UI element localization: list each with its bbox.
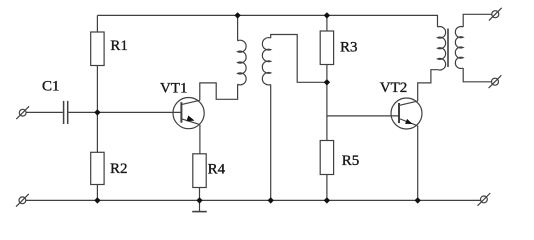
wire T1 secondary top lead to R3 bottom node [271, 35, 327, 83]
node dot T1 primary top on supply rail [234, 12, 240, 18]
wire R3 bottom through node and tee to R5 top [326, 65, 328, 141]
resistor R5 [320, 141, 333, 175]
resistor R4 [193, 154, 206, 188]
resistor R3 [320, 31, 333, 65]
resistor R1 [91, 32, 104, 66]
svg-text:VT1: VT1 [160, 80, 188, 96]
node dot T1 secondary on rail [268, 197, 274, 203]
terminal input left [16, 106, 29, 119]
svg-text:C1: C1 [42, 79, 60, 95]
node A junction dot (C1/R1/R2/base) [94, 109, 100, 115]
wire T2 secondary top lead to output terminal [463, 14, 492, 27]
svg-text:R1: R1 [110, 38, 128, 54]
transformer T1 secondary winding [262, 38, 270, 85]
wire C1 to node to VT1 base [68, 111, 181, 113]
wire VT1 emitter to R4 [199, 125, 201, 154]
wire VT1 collector staircase to T1 primary bottom [200, 83, 238, 101]
transistor VT2 [391, 98, 422, 129]
transformer T2 secondary winding [455, 27, 463, 69]
transformer T1 primary winding [238, 15, 247, 84]
transistor VT1 [173, 98, 204, 129]
wire R4 bottom lead [199, 188, 201, 201]
node dot R2 on rail [94, 197, 100, 203]
wire bottom ground rail [26, 199, 481, 201]
transformer T2 core [447, 29, 449, 68]
wire left column (R1 top lead) [96, 15, 98, 32]
terminal output top right [489, 8, 502, 21]
node dot R4/ground on rail [196, 197, 202, 203]
terminal output lower right [489, 75, 502, 88]
wire R1 bottom to input node to R2 top [96, 66, 98, 153]
node dot VT2 emitter on rail [415, 197, 421, 203]
svg-text:R5: R5 [342, 153, 360, 169]
wire VT2 base [327, 115, 399, 117]
svg-text:VT2: VT2 [380, 80, 408, 96]
svg-text:R2: R2 [110, 161, 128, 177]
wire T1 secondary bottom lead to ground rail [270, 85, 272, 201]
wire R3 top lead [326, 15, 328, 31]
wire R5 bottom lead [326, 175, 328, 201]
transformer T2 primary winding [438, 27, 446, 70]
node dot R3 bottom / T1 secondary [324, 79, 330, 85]
wire R2 bottom lead [96, 185, 98, 201]
svg-text:R4: R4 [208, 161, 226, 177]
ground symbol [192, 200, 207, 211]
node dot R5 on rail [324, 197, 330, 203]
resistor R2 [91, 152, 104, 184]
terminal bottom right [478, 193, 491, 206]
wire input terminal to C1 [26, 111, 63, 113]
wire VT2 emitter to ground rail [417, 126, 419, 201]
wire VT2 collector staircase to T2 primary bottom [418, 70, 438, 101]
node dot R3 top on supply rail [324, 12, 330, 18]
wire top supply rail [97, 15, 437, 27]
wire T2 secondary bottom lead to output terminal [463, 68, 491, 82]
capacitor C1 [64, 101, 68, 124]
terminal bottom left [16, 194, 29, 207]
svg-text:R3: R3 [340, 39, 358, 55]
